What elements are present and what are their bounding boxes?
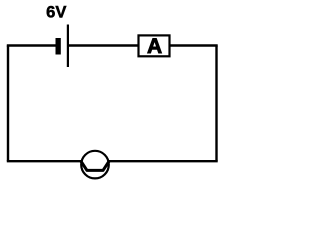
svg-text:A: A [147,35,162,58]
svg-text:6V: 6V [46,3,66,22]
